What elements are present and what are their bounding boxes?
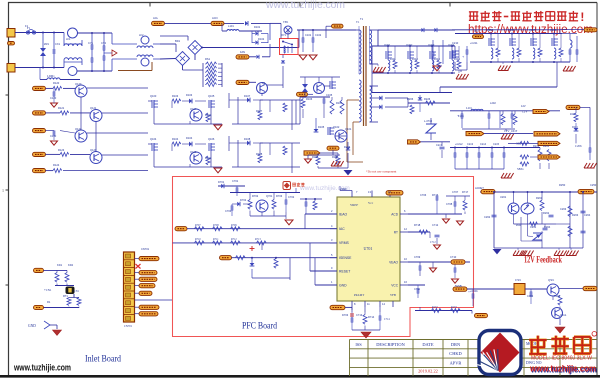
svg-text:APVR: APVR <box>450 360 462 365</box>
svg-text:R120: R120 <box>53 81 60 85</box>
svg-text:C712: C712 <box>430 241 436 244</box>
svg-text:R711: R711 <box>213 238 219 241</box>
svg-text:Q101: Q101 <box>345 127 352 131</box>
svg-text:Q122: Q122 <box>75 127 82 131</box>
svg-text:D702: D702 <box>240 198 247 202</box>
svg-text:CHKD: CHKD <box>449 351 461 356</box>
svg-text:CY2: CY2 <box>101 41 107 45</box>
svg-text:CN701: CN701 <box>124 325 133 328</box>
svg-text:R134: R134 <box>205 156 212 160</box>
svg-text:12V Feedback: 12V Feedback <box>524 256 562 266</box>
svg-text:L214: L214 <box>454 57 460 61</box>
svg-text:MODEL: IEC-8049J-3LX-W: MODEL: IEC-8049J-3LX-W <box>531 356 593 362</box>
svg-text:SB3x: SB3x <box>517 167 524 171</box>
svg-text:R261: R261 <box>536 196 543 200</box>
svg-text:C262: C262 <box>484 215 491 219</box>
svg-text:Q121: Q121 <box>90 106 97 110</box>
svg-text:R712: R712 <box>231 238 237 241</box>
svg-text:12V_OCP: 12V_OCP <box>504 129 518 133</box>
svg-text:Q206: Q206 <box>508 28 515 32</box>
svg-text:RT1: RT1 <box>63 294 68 298</box>
svg-text:R702: R702 <box>252 194 259 198</box>
svg-text:R111: R111 <box>332 155 338 159</box>
svg-text:R1: R1 <box>47 300 51 304</box>
svg-text:R714: R714 <box>368 315 375 319</box>
svg-text:LDM1: LDM1 <box>47 75 55 78</box>
svg-text:L202: L202 <box>490 101 496 105</box>
svg-text:VRMS: VRMS <box>339 241 350 245</box>
svg-text:R103: R103 <box>172 94 179 98</box>
svg-text:www.tuzhijie.com: www.tuzhijie.com <box>265 0 345 11</box>
svg-text:L213: L213 <box>434 57 440 61</box>
svg-text:RESET: RESET <box>339 269 350 273</box>
svg-text:R710: R710 <box>195 238 201 241</box>
svg-text:D201: D201 <box>572 126 578 129</box>
svg-text:C206: C206 <box>575 144 582 148</box>
svg-text:Q1: Q1 <box>262 81 266 85</box>
svg-text:Q201: Q201 <box>384 43 391 47</box>
svg-text:Vcc: Vcc <box>368 201 374 205</box>
svg-text:PKLMT: PKLMT <box>354 293 364 297</box>
svg-text:Q301: Q301 <box>548 279 555 282</box>
svg-text:D703: D703 <box>342 313 349 317</box>
svg-text:2019.02.22: 2019.02.22 <box>418 369 438 374</box>
svg-text:R262: R262 <box>543 211 550 215</box>
svg-text:C708: C708 <box>446 202 453 206</box>
svg-text:D108: D108 <box>244 137 251 141</box>
svg-text:+CN1: +CN1 <box>44 288 52 292</box>
svg-text:C2x3: C2x3 <box>467 142 474 146</box>
svg-text:IEAO: IEAO <box>339 212 347 216</box>
svg-text:R172: R172 <box>432 306 438 309</box>
svg-text:Q120: Q120 <box>75 82 82 86</box>
svg-text:TB1: TB1 <box>283 20 289 24</box>
svg-text:BD1: BD1 <box>175 39 181 43</box>
svg-text:ACN: ACN <box>212 16 218 20</box>
svg-text:D102: D102 <box>258 37 265 41</box>
svg-text:Q123: Q123 <box>90 148 97 152</box>
svg-text:L-3713: L-3713 <box>424 119 433 123</box>
svg-text:ISENSE: ISENSE <box>339 256 352 260</box>
svg-text:C105: C105 <box>326 93 333 97</box>
svg-text:R709: R709 <box>231 224 237 227</box>
svg-text:D106: D106 <box>344 145 351 149</box>
svg-text:Q106: Q106 <box>208 137 215 141</box>
svg-text:C250: C250 <box>590 183 597 187</box>
svg-text:C264: C264 <box>584 213 591 217</box>
svg-text:C706: C706 <box>420 193 427 197</box>
svg-text:C714: C714 <box>384 318 390 321</box>
svg-text:VG: VG <box>474 29 478 33</box>
svg-text:CN1: CN1 <box>74 290 80 293</box>
svg-text:D206: D206 <box>407 97 414 101</box>
svg-text:CN701: CN701 <box>141 247 150 251</box>
svg-text:C709: C709 <box>414 255 421 259</box>
svg-text:D104: D104 <box>186 136 193 140</box>
svg-text:R138: R138 <box>256 152 263 156</box>
svg-text:Q207: Q207 <box>529 28 536 32</box>
svg-text:CX1: CX1 <box>55 42 61 46</box>
svg-text:R226: R226 <box>424 97 431 101</box>
svg-text:U301: U301 <box>515 279 522 282</box>
svg-text:PFC Board: PFC Board <box>242 322 277 332</box>
svg-text:D107: D107 <box>244 94 251 98</box>
svg-text:ISS: ISS <box>355 342 362 347</box>
svg-text:5VSB: 5VSB <box>455 284 462 288</box>
svg-text:www.tuzhijie.com: www.tuzhijie.com <box>529 364 596 375</box>
svg-text:R110: R110 <box>312 155 319 159</box>
svg-text:Q208: Q208 <box>550 28 557 32</box>
svg-text:U701: U701 <box>364 246 373 251</box>
svg-text:KD1: KD1 <box>57 263 63 267</box>
svg-text:RS1: RS1 <box>205 57 211 61</box>
svg-text:C101: C101 <box>305 33 312 37</box>
svg-text:+C2x2: +C2x2 <box>455 142 463 146</box>
svg-text:C712: C712 <box>432 223 439 227</box>
svg-text:12V: 12V <box>522 110 528 114</box>
svg-text:12V: 12V <box>521 104 526 108</box>
svg-text:IAC: IAC <box>339 227 345 231</box>
svg-text:D103: D103 <box>186 93 193 97</box>
svg-text:C102: C102 <box>315 33 322 37</box>
svg-text:R2x2: R2x2 <box>543 144 550 148</box>
svg-text:+C301: +C301 <box>470 289 478 293</box>
svg-text:VEAO: VEAO <box>389 260 398 264</box>
svg-text:R124: R124 <box>53 163 60 167</box>
svg-text:DATE: DATE <box>422 342 434 347</box>
svg-text:C707: C707 <box>452 190 459 194</box>
svg-text:ACD: ACD <box>391 212 398 216</box>
svg-text:C713: C713 <box>356 313 363 317</box>
svg-text:VFB: VFB <box>390 293 396 297</box>
svg-text:ACDET: ACDET <box>475 186 484 190</box>
svg-text:GND: GND <box>28 324 36 328</box>
svg-text:Q108: Q108 <box>190 150 197 154</box>
svg-text:VCC: VCC <box>391 283 398 287</box>
svg-text:CY1: CY1 <box>88 41 94 45</box>
svg-text:L212: L212 <box>412 57 418 61</box>
svg-text:+C211: +C211 <box>470 41 478 45</box>
svg-text:Q107: Q107 <box>190 107 197 111</box>
svg-text:ZD2: ZD2 <box>516 223 521 227</box>
svg-text:R173: R173 <box>451 306 457 309</box>
svg-text:LF2: LF2 <box>139 33 144 37</box>
svg-text:C263: C263 <box>560 207 567 211</box>
svg-text:D105: D105 <box>318 125 325 129</box>
svg-text:ZR1: ZR1 <box>44 42 49 46</box>
svg-text:GND: GND <box>339 283 347 287</box>
svg-text:R106: R106 <box>306 97 313 101</box>
svg-text:R708: R708 <box>213 224 219 227</box>
svg-text:L201: L201 <box>466 107 473 110</box>
svg-text:R703: R703 <box>276 194 283 198</box>
svg-text:Q103: Q103 <box>150 94 157 98</box>
svg-text:D701: D701 <box>218 180 225 184</box>
svg-text:R263: R263 <box>572 213 579 217</box>
svg-text:KD2: KD2 <box>68 263 74 267</box>
svg-text:R716: R716 <box>432 193 439 197</box>
svg-text:Q105: Q105 <box>208 94 215 98</box>
svg-text:C703: C703 <box>225 209 232 213</box>
svg-text:R133: R133 <box>205 113 212 117</box>
svg-text:R137: R137 <box>256 109 263 113</box>
svg-text:Q202: Q202 <box>406 43 413 47</box>
svg-text:C2x4: C2x4 <box>480 142 487 146</box>
svg-text:RT: RT <box>394 230 398 234</box>
svg-text:FAN: FAN <box>240 50 245 54</box>
svg-text:R121: R121 <box>58 106 65 110</box>
svg-text:Q104: Q104 <box>150 137 157 141</box>
svg-text:D101: D101 <box>254 25 261 29</box>
svg-text:Q205: Q205 <box>487 28 494 32</box>
svg-text:RY1: RY1 <box>281 33 287 37</box>
svg-text:C210: C210 <box>452 41 459 45</box>
svg-text:www.tuzhijie.com: www.tuzhijie.com <box>13 363 71 374</box>
svg-text:!: ! <box>580 10 584 24</box>
svg-text:C261: C261 <box>530 225 537 229</box>
svg-text:VREF: VREF <box>340 187 347 191</box>
svg-text:1: 1 <box>2 188 4 193</box>
svg-text:R717: R717 <box>462 190 469 194</box>
svg-text:R104: R104 <box>172 137 179 141</box>
svg-text:C711: C711 <box>414 287 421 291</box>
svg-text:DESCRIPTION: DESCRIPTION <box>376 342 405 347</box>
svg-text:R264: R264 <box>544 225 551 229</box>
svg-text:*Do not use component: *Do not use component <box>366 170 396 174</box>
svg-text:C120: C120 <box>50 96 57 100</box>
svg-text:ACL: ACL <box>153 16 159 20</box>
svg-text:R707: R707 <box>195 224 201 227</box>
svg-text:C140: C140 <box>50 134 57 138</box>
svg-text:Q102: Q102 <box>333 125 340 129</box>
svg-text:C701: C701 <box>232 179 239 183</box>
svg-text:Q701: Q701 <box>266 194 273 198</box>
svg-text:R713: R713 <box>255 238 261 241</box>
svg-text:C302: C302 <box>527 294 534 298</box>
svg-text:R2x1: R2x1 <box>533 144 540 148</box>
svg-text:R123: R123 <box>58 148 65 152</box>
svg-text:U201: U201 <box>500 195 507 199</box>
svg-text:C204: C204 <box>458 115 464 118</box>
svg-text:C710: C710 <box>450 255 457 259</box>
svg-text:Q203: Q203 <box>428 43 435 47</box>
svg-text:VREF: VREF <box>350 203 358 207</box>
svg-text:R250: R250 <box>559 183 566 187</box>
svg-text:R301: R301 <box>554 294 561 298</box>
svg-text:R718: R718 <box>414 223 421 227</box>
svg-text:C702: C702 <box>288 195 295 199</box>
svg-text:L211: L211 <box>390 57 396 61</box>
svg-text:C2x7: C2x7 <box>436 143 443 147</box>
svg-text:R107: R107 <box>336 101 343 105</box>
svg-text:Q30A: Q30A <box>560 314 566 317</box>
svg-text:C2x5: C2x5 <box>493 142 500 146</box>
svg-text:Inlet Board: Inlet Board <box>85 355 121 365</box>
svg-text:L101: L101 <box>228 24 234 28</box>
svg-text:LF1: LF1 <box>66 37 71 41</box>
svg-text:DRN: DRN <box>451 342 461 347</box>
